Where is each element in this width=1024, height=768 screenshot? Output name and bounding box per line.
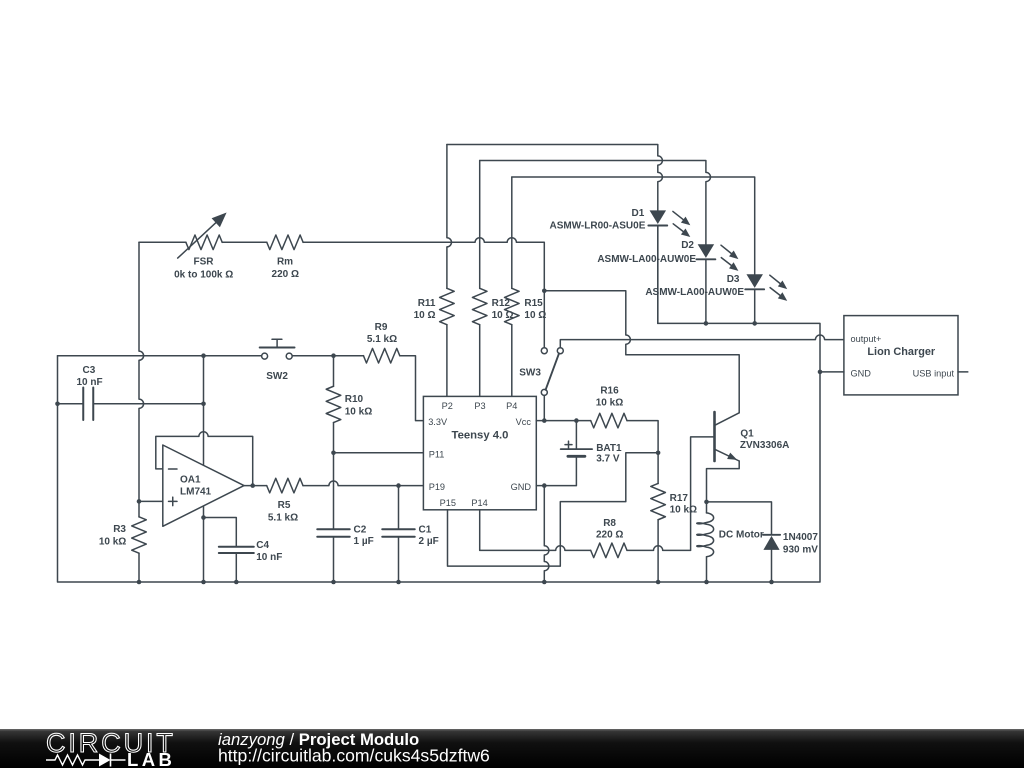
wire: R5 to P19 with hop over C2 vertical <box>303 481 423 486</box>
resistor R3 <box>132 517 147 553</box>
wire: bus branch to Q1 collector (hop over output+ wire) <box>544 291 739 413</box>
svg-text:10 kΩ: 10 kΩ <box>99 536 126 547</box>
resistor R12 <box>472 288 487 324</box>
svg-text:C4: C4 <box>256 540 269 551</box>
svg-text:P3: P3 <box>474 401 485 411</box>
op-amp OA1 (LM741) <box>163 445 244 526</box>
transistor Q1 ZVN3306A <box>713 412 716 461</box>
svg-text:ASMW-LA00-AUW0E: ASMW-LA00-AUW0E <box>645 287 744 298</box>
svg-text:BAT1: BAT1 <box>596 443 622 454</box>
svg-text:P14: P14 <box>471 498 487 508</box>
svg-text:ASMW-LR00-ASU0E: ASMW-LR00-ASU0E <box>549 221 645 232</box>
svg-text:C2: C2 <box>354 524 367 535</box>
svg-text:10 kΩ: 10 kΩ <box>596 397 623 408</box>
svg-text:10 kΩ: 10 kΩ <box>345 406 372 417</box>
svg-text:5.1 kΩ: 5.1 kΩ <box>367 334 397 345</box>
diode D4 1N4007 <box>763 534 780 536</box>
wire: D3 feed (P4/R15 riser to D3) <box>512 177 755 274</box>
svg-text:P19: P19 <box>429 482 445 492</box>
wire: R15 to Teensy P4 stub <box>511 325 513 397</box>
svg-text:R10: R10 <box>345 394 364 405</box>
resistor R5 <box>267 478 303 493</box>
node: C3 left on left rail <box>55 401 60 406</box>
node: output/feedback junction <box>250 483 255 488</box>
wire: FSR left leg down to R3 / op-amp + input, hops over SW2 and C3 wires <box>139 242 144 517</box>
node: Vcc/SW3 junction <box>542 418 547 423</box>
svg-text:P15: P15 <box>440 498 456 508</box>
svg-text:R15: R15 <box>524 298 543 309</box>
resistor R11 <box>440 288 455 324</box>
svg-text:LAB: LAB <box>127 749 175 768</box>
resistor Rm <box>267 235 303 250</box>
svg-text:R3: R3 <box>113 524 126 535</box>
node: R9/R10 junction <box>331 353 336 358</box>
IC Lion Charger box <box>844 316 958 395</box>
svg-text:DC Motor: DC Motor <box>719 530 764 541</box>
svg-text:10 nF: 10 nF <box>76 377 102 388</box>
svg-text:LM741: LM741 <box>180 486 212 497</box>
wire: SW2 to R9 junction <box>292 355 333 357</box>
svg-text:220 Ω: 220 Ω <box>272 269 299 280</box>
svg-text:D1: D1 <box>632 208 645 219</box>
op-amp input signs <box>169 468 178 470</box>
node: R16/R17/P15 junction <box>656 451 661 456</box>
FSR arrow <box>178 219 220 258</box>
wire: SW3 right throw to Lion Charger output+ (hop over charger GND riser) <box>560 335 844 348</box>
resistor R8 <box>591 543 627 558</box>
wire: op-amp output to R5 <box>244 485 267 487</box>
node: GND vertical on rail <box>542 580 547 585</box>
node: SW2 wire junction <box>201 353 206 358</box>
node: D3 cathode on LED rail <box>752 321 757 326</box>
wire: R11 to Teensy P2 stub <box>446 325 448 397</box>
logo resistor-diode squiggle <box>46 755 99 765</box>
svg-text:P4: P4 <box>506 401 517 411</box>
svg-text:R5: R5 <box>278 500 291 511</box>
svg-text:0k to 100k Ω: 0k to 100k Ω <box>174 270 233 281</box>
svg-text:R8: R8 <box>603 518 616 529</box>
node: R3 bottom on rail <box>137 580 142 585</box>
svg-text:930 mV: 930 mV <box>783 544 818 555</box>
node: D2 cathode on LED rail <box>704 321 709 326</box>
wire: P11 wire to Teensy <box>334 452 424 454</box>
wire: SW2 left wire <box>58 355 262 357</box>
wire: D2 feed (P3/R12 riser to D2), riser hops over D3 feed wire <box>480 161 711 245</box>
LED D3 <box>746 274 763 288</box>
capacitor C4 <box>219 547 254 553</box>
svg-text:R9: R9 <box>375 322 388 333</box>
wire: C2 to rail <box>333 537 335 582</box>
wire: Teensy GND to rail (hops over P14 and P15 wires) <box>536 485 544 487</box>
resistor R15 <box>505 288 520 324</box>
wire: junction to R9 <box>334 355 364 357</box>
svg-text:D2: D2 <box>681 240 694 251</box>
svg-text:SW3: SW3 <box>519 368 541 379</box>
resistor R16 <box>591 413 627 428</box>
wire: ground rail (SW2-left / C3-left / bottom rail / LED cathode rail / charger GND) <box>58 226 821 583</box>
node: P11/R10/C2 junction <box>331 451 336 456</box>
svg-text:5.1 kΩ: 5.1 kΩ <box>268 513 298 524</box>
svg-text:C1: C1 <box>419 524 432 535</box>
variable resistor FSR <box>186 235 222 250</box>
resistor R9 <box>363 348 399 363</box>
wire: R12 to Teensy P3 stub <box>479 325 481 397</box>
svg-text:output+: output+ <box>851 334 882 344</box>
svg-text:2 µF: 2 µF <box>419 536 439 547</box>
svg-text:10 nF: 10 nF <box>256 552 282 563</box>
svg-text:10 Ω: 10 Ω <box>414 310 436 321</box>
wire: D1 feed (P2/R11 riser to D1), hop over bus on vertical <box>447 145 662 211</box>
svg-text:1 µF: 1 µF <box>354 536 374 547</box>
svg-text:ZVN3306A: ZVN3306A <box>740 440 789 451</box>
svg-text:R11: R11 <box>418 298 436 309</box>
wire: R9 to Teensy 3.3V pin <box>400 356 424 421</box>
wire: P14 to R8 with hop over P15 riser <box>480 510 591 551</box>
svg-text:P2: P2 <box>442 401 453 411</box>
svg-text:R12: R12 <box>492 298 511 309</box>
wire: C4 branch from vertical <box>204 518 237 547</box>
wire: USB input stub <box>958 371 968 373</box>
wire: R17 to rail <box>657 520 659 582</box>
capacitor C1 <box>398 486 400 530</box>
svg-text:C3: C3 <box>83 365 96 376</box>
svg-text:R17: R17 <box>670 493 689 504</box>
resistor R17 <box>651 483 666 519</box>
capacitor C2 <box>317 529 350 537</box>
svg-text:Teensy 4.0: Teensy 4.0 <box>452 429 509 441</box>
svg-text:GND: GND <box>511 482 532 492</box>
wire: SW3 common to Vcc <box>543 395 545 420</box>
switch SW2 (push button) <box>262 353 268 359</box>
svg-text:R16: R16 <box>600 385 619 396</box>
svg-text:GND: GND <box>851 369 872 379</box>
wire: charger GND to LED rail riser <box>820 371 844 373</box>
svg-text:D3: D3 <box>727 274 740 285</box>
wire: SW2/C3/C4 vertical (passes under op-amp) <box>203 356 205 582</box>
svg-text:1N4007: 1N4007 <box>783 532 818 543</box>
switch SW3 (SPDT) <box>541 348 547 354</box>
capacitor C3 <box>58 403 84 405</box>
svg-text:10 Ω: 10 Ω <box>524 310 546 321</box>
node: emitter/motor/diode junction <box>704 500 709 505</box>
svg-text:USB input: USB input <box>913 369 955 379</box>
node: C3 wire junction <box>201 401 206 406</box>
wire: main bus FSR/Rm wire (left segment) <box>139 241 186 243</box>
svg-text:Q1: Q1 <box>740 429 754 440</box>
node: charger GND junction <box>818 370 823 375</box>
svg-text:3.3V: 3.3V <box>428 417 448 427</box>
wire: R16 right to R17 <box>627 421 658 484</box>
svg-text:10 kΩ: 10 kΩ <box>670 504 697 515</box>
svg-text:P11: P11 <box>429 450 445 460</box>
node: R3 top / op-amp + junction <box>137 499 142 504</box>
wire: bus Rm to corner, hops over P3/P4 risers, down to SW3 throw <box>303 238 544 348</box>
node: BAT1 + junction <box>574 418 579 423</box>
wire: op-amp feedback loop (hop over C4 vertical) <box>156 432 253 486</box>
svg-text:Vcc: Vcc <box>516 417 532 427</box>
svg-text:OA1: OA1 <box>180 475 201 486</box>
svg-text:ASMW-LA00-AUW0E: ASMW-LA00-AUW0E <box>597 254 696 265</box>
wire: R10 top lead <box>333 356 335 387</box>
wire: R10 bottom to P11 junction, down to C2 <box>333 423 335 530</box>
wire: motor top to diode D4 <box>707 502 772 535</box>
svg-text:Lion Charger: Lion Charger <box>867 346 936 358</box>
svg-text:SW2: SW2 <box>266 371 288 382</box>
svg-text:http://circuitlab.com/cuks4s5d: http://circuitlab.com/cuks4s5dzftw6 <box>218 746 490 766</box>
svg-text:3.7 V: 3.7 V <box>596 453 620 464</box>
wire: op-amp + input from left vertical <box>139 500 163 502</box>
svg-text:Rm: Rm <box>277 257 293 268</box>
wire: bus between FSR and Rm <box>222 241 267 243</box>
battery BAT1 <box>575 421 577 450</box>
footer bar <box>0 729 1024 768</box>
node: C1/P19 junction <box>396 483 401 488</box>
node: GND/BAT1- junction <box>542 483 547 488</box>
IC U1 Teensy 4.0 box <box>423 396 536 509</box>
node: vertical on rail <box>201 580 206 585</box>
wire: Q1 emitter to motor junction <box>707 461 740 502</box>
svg-text:FSR: FSR <box>194 257 215 268</box>
wire: R8 to Q1 gate, hop over R17 vertical <box>627 437 713 550</box>
svg-text:220 Ω: 220 Ω <box>596 529 623 540</box>
node: bus split junction <box>542 289 547 294</box>
inductor DC Motor <box>706 502 708 513</box>
resistor R10 <box>326 386 341 422</box>
LED D2 <box>698 244 715 258</box>
wire: Teensy Vcc to R16 <box>536 420 590 422</box>
wire: R3 to ground rail <box>138 553 140 582</box>
node: C4 branch junction <box>201 515 206 520</box>
wire: C4 to rail <box>235 553 237 582</box>
LED D1 <box>650 210 667 224</box>
wire: P15 to R17 top (via risers) <box>448 453 659 566</box>
